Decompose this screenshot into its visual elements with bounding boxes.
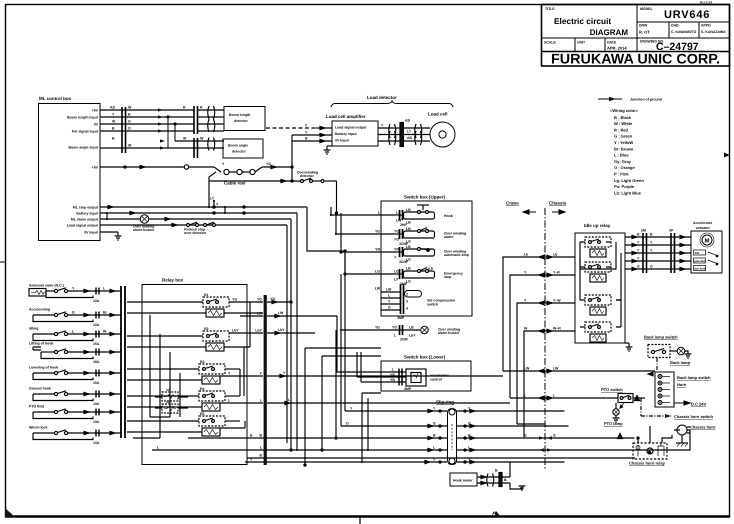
feeds [637, 438, 639, 443]
over winding alarm buzzer [340, 325, 428, 335]
svg-text:detector: detector [232, 150, 246, 154]
svg-text:S. KANAZAWA: S. KANAZAWA [701, 30, 726, 34]
svg-text:Pu: Purple: Pu: Purple [614, 184, 635, 189]
junction marks at boundary [539, 255, 552, 333]
svg-text:SW: SW [695, 251, 700, 255]
3rd compression switch [381, 284, 422, 314]
svg-text:B: B [637, 233, 640, 237]
boom angle detector [223, 139, 263, 158]
svg-text:Switch box (Upper): Switch box (Upper) [404, 195, 446, 200]
svg-text:CHD: CHD [671, 24, 679, 28]
connector bar length detector [193, 106, 195, 134]
junction dots [439, 410, 441, 412]
svg-text:R. OT: R. OT [639, 30, 650, 35]
svg-text:R2: R2 [204, 327, 209, 331]
svg-text:W–R: W–R [553, 327, 561, 331]
lifting of hook switch [33, 347, 121, 359]
svg-text:B: B [259, 454, 262, 458]
svg-text:LbY: LbY [232, 329, 239, 333]
switch row over winding alarm [395, 228, 435, 240]
svg-text:LY: LY [210, 197, 215, 201]
svg-text:APPD: APPD [701, 24, 711, 28]
svg-text:Y: Y [216, 203, 219, 207]
wire sr4 [152, 449, 447, 451]
svg-text:2GM: 2GM [400, 338, 408, 342]
idling switch [33, 331, 121, 341]
PTO field switch [33, 409, 121, 419]
svg-text:L: L [433, 446, 436, 450]
amp input wires [292, 126, 332, 142]
svg-text:Boom angle input: Boom angle input [68, 146, 98, 150]
svg-text:ML stop output: ML stop output [73, 206, 99, 210]
svg-text:LW: LW [553, 367, 559, 371]
svg-text:Y: Y [222, 162, 225, 166]
wire boom angle 1 [175, 140, 224, 142]
connector arcs length [208, 106, 215, 132]
solenoid valve switch [29, 288, 121, 298]
svg-text:B : Black: B : Black [614, 115, 632, 120]
svg-text:Ground hook: Ground hook [29, 387, 51, 391]
svg-text:M: M [705, 238, 710, 245]
tick below bottom edge [359, 516, 361, 524]
wire ML alarm [100, 218, 291, 220]
svg-text:L: L [157, 446, 160, 450]
wire out y301 [267, 301, 291, 303]
slip ring wires [152, 409, 691, 463]
svg-text:Back lamp: Back lamp [670, 360, 691, 365]
wire io1 [625, 236, 691, 238]
idle up relay box [575, 233, 625, 343]
svg-text:Y: Y [524, 271, 527, 275]
wire sr5 [245, 461, 447, 463]
boom length detector [224, 107, 265, 131]
connector bar idle 1 [642, 233, 644, 273]
svg-text:G: G [128, 120, 131, 124]
svg-text:Y–R: Y–R [553, 271, 560, 275]
svg-text:Load cell amplifier: Load cell amplifier [326, 114, 366, 119]
svg-text:YG: YG [257, 298, 262, 302]
relay IU1 [580, 237, 611, 258]
svg-text:G: G [637, 265, 640, 269]
slip ring capsule [448, 409, 457, 465]
svg-text:LG: LG [375, 270, 380, 274]
load cell amplifier [332, 121, 378, 146]
lower area vertical links [247, 330, 635, 466]
svg-text:Y: Y [350, 407, 353, 411]
relay R3 [127, 364, 263, 384]
svg-text:B: B [495, 469, 498, 473]
svg-text:potentio: potentio [694, 259, 705, 263]
svg-text:Y: Y [305, 131, 308, 135]
svg-text:Y: Y [524, 299, 527, 303]
svg-text:Y: Y [381, 124, 384, 128]
wire boom length signal [100, 116, 194, 118]
switch row emergency stop [395, 267, 435, 280]
svg-text:YR: YR [394, 248, 399, 252]
junction dots bar C [264, 301, 266, 463]
node vertical [291, 135, 293, 181]
svg-text:+5V: +5V [92, 109, 99, 113]
svg-text:DRW: DRW [639, 24, 648, 28]
centering mark bottom triangle [491, 511, 501, 517]
svg-text:LY: LY [394, 278, 399, 282]
svg-text:G: G [72, 311, 75, 315]
svg-text:LB: LB [406, 245, 411, 249]
svg-text:Chassis horn relay: Chassis horn relay [629, 461, 666, 466]
wire bus down 2 [296, 213, 298, 450]
ML box bottom vertical links [107, 201, 214, 219]
svg-text:Load signal output: Load signal output [67, 224, 99, 228]
chassis ground hatched [676, 435, 688, 447]
svg-text:15A: 15A [93, 360, 100, 364]
svg-text:LbY: LbY [278, 328, 285, 332]
svg-text:10A: 10A [93, 441, 100, 445]
svg-text:alarm buzzer: alarm buzzer [133, 228, 155, 232]
svg-text:G: G [553, 434, 556, 438]
wire out y316 [267, 315, 337, 317]
svg-text:L: L [228, 399, 231, 403]
svg-text:Back lamp switch: Back lamp switch [677, 375, 711, 380]
svg-text:3MP: 3MP [397, 316, 405, 320]
relay R5 [127, 416, 245, 436]
svg-text:Y: Y [305, 124, 308, 128]
svg-text:PTO field: PTO field [29, 405, 44, 409]
svg-text:UNIT: UNIT [577, 41, 586, 45]
svg-text:L: L [553, 394, 556, 398]
svg-text:R4: R4 [200, 387, 205, 391]
svg-text:10A: 10A [93, 323, 100, 327]
hook motor box [450, 473, 477, 486]
svg-text:over detector: over detector [184, 231, 207, 235]
svg-text:Y: Y [394, 256, 397, 260]
lowering of hook switch [33, 370, 121, 380]
svg-text:O : Orange: O : Orange [614, 165, 635, 170]
junction of chassis symbol [598, 97, 622, 102]
svg-text:0V input: 0V input [84, 231, 99, 235]
svg-text:L: L [260, 399, 263, 403]
ground idle box [625, 343, 632, 351]
svg-text:15A: 15A [93, 342, 100, 346]
svg-text:G: G [650, 265, 653, 269]
svg-text:1A: 1A [166, 388, 171, 392]
wire sr1 [345, 410, 447, 412]
svg-text:Lb: Lb [553, 253, 557, 257]
switch overwinding [301, 180, 304, 183]
svg-text:B: B [128, 113, 131, 117]
svg-text:Slip ring: Slip ring [436, 400, 454, 405]
svg-text:LB: LB [406, 208, 411, 212]
svg-text:Y : YelloW: Y : YelloW [614, 140, 633, 145]
motor [702, 235, 712, 245]
PTO lamp [613, 403, 620, 422]
svg-text:L: L [103, 287, 106, 291]
labels bar C crossings left [255, 298, 262, 458]
svg-text:Lifting of hook: Lifting of hook [29, 342, 53, 346]
svg-text:B: B [305, 137, 308, 141]
svg-text:G: G [388, 306, 391, 310]
svg-text:a.b: a.b [428, 267, 433, 271]
svg-text:R3: R3 [200, 360, 205, 364]
svg-text:Horn: Horn [677, 382, 687, 387]
svg-text:P : Pink: P : Pink [614, 172, 629, 177]
svg-text:MODEL: MODEL [640, 7, 654, 11]
connector bar idle 2 [670, 233, 672, 273]
svg-text:Y: Y [283, 371, 286, 375]
svg-text:Y: Y [388, 300, 391, 304]
chassis arrow [552, 210, 565, 214]
svg-text:LW: LW [375, 287, 381, 291]
switch row over winding stop [395, 247, 435, 257]
wire bus down 1 [307, 207, 345, 251]
switch box upper [381, 201, 472, 316]
svg-text:Idle up relay: Idle up relay [584, 223, 611, 228]
relay R4 [127, 391, 263, 411]
svg-text:YG: YG [392, 326, 397, 330]
svg-text:Back lamp switch: Back lamp switch [644, 335, 678, 340]
svg-text:Chassis: Chassis [549, 201, 567, 206]
wire ML stop [100, 206, 307, 208]
horn block [655, 372, 674, 407]
connector bar ML [121, 107, 123, 153]
wire pot signal [100, 130, 194, 132]
cable reel coils [214, 167, 221, 172]
wire corner 4 [524, 331, 575, 438]
amp output wires [378, 123, 430, 147]
svg-text:L: L [378, 211, 381, 215]
wire boom 0V [100, 123, 194, 125]
junction marks y450 [539, 448, 552, 452]
feed wires lower box [337, 316, 365, 382]
svg-text:Hook: Hook [444, 214, 453, 218]
svg-text:Winch lock: Winch lock [29, 426, 47, 430]
labels slip ring feeds [157, 407, 353, 462]
svg-text:Load detector: Load detector [367, 95, 397, 100]
svg-text:Y: Y [650, 249, 653, 253]
kickout override switches [187, 222, 216, 226]
branch verticals [167, 116, 169, 118]
right vertical from horn block [687, 430, 690, 450]
svg-text:Y: Y [260, 372, 263, 376]
svg-text:Lb: Light Blue: Lb: Light Blue [614, 190, 642, 195]
svg-text:Y–W: Y–W [553, 299, 561, 303]
wire out y403 long [267, 402, 510, 404]
svg-text:G: G [468, 422, 471, 426]
connector arcs pair2 [415, 124, 422, 145]
svg-text:AG: AG [110, 106, 116, 110]
svg-text:Boom length input: Boom length input [67, 116, 99, 120]
wires to length detector [197, 109, 224, 111]
svg-text:L: L [396, 211, 399, 215]
svg-text:G: G [346, 422, 349, 426]
svg-text:SCALE: SCALE [544, 41, 557, 45]
arrows on buses [108, 205, 177, 226]
svg-text:W: W [200, 137, 204, 141]
svg-text:W: W [128, 144, 132, 148]
wire out y376 long [267, 375, 503, 377]
connector bar angle detector [193, 138, 195, 158]
wire battery [100, 212, 297, 214]
DC24V arrow [674, 401, 690, 405]
svg-text:FURUKAWA UNIC CORP.: FURUKAWA UNIC CORP. [551, 51, 720, 67]
svg-text:10A: 10A [93, 402, 100, 406]
svg-text:Y: Y [637, 249, 640, 253]
wire [209, 172, 216, 181]
wire to PTO [510, 397, 618, 399]
svg-text:detector: detector [234, 119, 248, 123]
svg-text:Crane: Crane [506, 201, 519, 206]
svg-text:R5: R5 [200, 412, 205, 416]
svg-text:O: O [128, 127, 131, 131]
svg-text:0V: 0V [94, 123, 99, 127]
svg-text:R: R [200, 106, 203, 110]
connector bold bar [400, 123, 403, 147]
svg-text:LW: LW [524, 367, 530, 371]
svg-text:B: B [433, 434, 436, 438]
svg-text:B: B [112, 127, 115, 131]
wire io4 [625, 260, 691, 262]
svg-text:B: B [650, 233, 653, 237]
svg-text:L: L [524, 394, 527, 398]
wire +5V to reel [100, 166, 184, 168]
relay R1 [127, 297, 263, 317]
arrows [272, 300, 290, 404]
wire sr2 [341, 425, 447, 427]
svg-text:10A: 10A [93, 420, 100, 424]
svg-text:L: L [392, 368, 395, 372]
svg-text:L : Blue: L : Blue [614, 153, 629, 158]
svg-text:LbY: LbY [409, 334, 416, 338]
row feed labels left of switch box upper [375, 211, 381, 330]
wire 0V [100, 231, 118, 233]
wire out y333 [267, 332, 315, 334]
svg-text:DIAGRAM: DIAGRAM [590, 28, 629, 37]
svg-text:B: B [504, 478, 507, 482]
svg-text:PTO lamp: PTO lamp [604, 421, 623, 426]
centering mark right arrow [724, 153, 730, 158]
wire bus down 3 [290, 219, 292, 450]
svg-text:Lg: Light Green: Lg: Light Green [614, 178, 644, 183]
svg-text:Switch box (Lower): Switch box (Lower) [404, 355, 446, 360]
svg-text:LW: LW [278, 311, 284, 315]
svg-text:YG: YG [232, 298, 237, 302]
svg-text:W: W [183, 137, 187, 141]
svg-text:W: W [524, 327, 528, 331]
wire feed switchbox rows [208, 181, 210, 207]
svg-text:sub level: sub level [694, 267, 706, 271]
svg-text:L: L [388, 294, 391, 298]
svg-text:15A: 15A [93, 381, 100, 385]
svg-text:LB: LB [406, 267, 411, 271]
svg-text:W: W [112, 120, 116, 124]
svg-text:PTO switch: PTO switch [601, 387, 623, 392]
svg-text:L: L [394, 334, 397, 338]
svg-text:LY: LY [407, 130, 412, 134]
svg-text:0V input: 0V input [335, 139, 350, 143]
ground hook switch [33, 391, 121, 401]
svg-text:Solenoid valve (N.C.): Solenoid valve (N.C.) [29, 284, 64, 288]
idle output wires [625, 233, 691, 273]
junction dots [213, 206, 215, 208]
svg-text:Load cell: Load cell [428, 112, 448, 117]
node open circle [184, 165, 188, 169]
svg-text:AB: AB [405, 119, 411, 123]
svg-text:LB: LB [406, 227, 411, 231]
relay R2 [127, 331, 263, 351]
svg-text:G : Green: G : Green [614, 134, 633, 139]
svg-text:Y: Y [637, 241, 640, 245]
svg-text:Junction of ground: Junction of ground [630, 98, 662, 102]
wire boom +5V [100, 109, 194, 111]
svg-text:Chassis horn: Chassis horn [690, 425, 716, 430]
switch row hook [395, 205, 435, 220]
wire corner 3 [517, 303, 575, 424]
svg-text:B: B [259, 434, 262, 438]
dashed boom line [266, 127, 316, 129]
svg-text:3: 3 [406, 300, 408, 304]
svg-text:automatic stop: automatic stop [444, 253, 469, 257]
crane arrow [523, 210, 536, 214]
load detector brace [331, 101, 453, 107]
svg-text:actuator: actuator [696, 226, 710, 230]
svg-text:Lb: Lb [524, 253, 528, 257]
svg-text:YG: YG [394, 238, 399, 242]
wire into horn block [503, 369, 655, 376]
svg-text:10A: 10A [93, 299, 100, 303]
svg-text:2: 2 [406, 293, 408, 297]
svg-text:DATE: DATE [607, 41, 617, 45]
wire io5 [625, 268, 691, 270]
svg-text:2P: 2P [669, 229, 674, 233]
svg-text:Battery input: Battery input [76, 212, 98, 216]
ground at amp [324, 146, 331, 154]
svg-text:Y: Y [112, 113, 115, 117]
svg-text:alarm buzzer: alarm buzzer [438, 331, 460, 335]
mech link dashdot [656, 358, 658, 372]
svg-text:Y: Y [637, 257, 640, 261]
svg-text:2M: 2M [641, 229, 646, 233]
svg-text:B: B [112, 137, 115, 141]
svg-text:Pot signal input: Pot signal input [72, 130, 99, 134]
svg-text:R: R [183, 106, 186, 110]
svg-text:Gy: Gray: Gy: Gray [614, 159, 632, 164]
back lamp [677, 347, 685, 355]
svg-text:Hook motor: Hook motor [453, 479, 473, 483]
svg-text:R : Red: R : Red [614, 127, 629, 132]
load cell [430, 122, 455, 147]
svg-text:Electric circuit: Electric circuit [554, 16, 611, 26]
svg-text:YR: YR [390, 373, 395, 377]
svg-text:W: W [103, 330, 107, 334]
svg-text:Accelerating: Accelerating [29, 308, 50, 312]
connector arcs angle [208, 138, 215, 151]
actuator internals [694, 250, 719, 271]
svg-text:detector: detector [300, 174, 314, 178]
svg-text:Boom angle: Boom angle [228, 144, 248, 148]
svg-text:alarm: alarm [444, 235, 453, 239]
svg-text:3CHP: 3CHP [399, 260, 409, 264]
svg-text:Y: Y [228, 372, 231, 376]
svg-text:1A: 1A [166, 400, 171, 404]
svg-text:YB: YB [390, 378, 395, 382]
svg-text:Boom length: Boom length [229, 113, 250, 117]
wire corner 1 [503, 257, 575, 371]
wire load signal [100, 224, 287, 226]
left column link wires [133, 315, 180, 438]
svg-text:D.C 24V: D.C 24V [691, 402, 706, 407]
corner triangle bottom-left [5, 508, 15, 517]
relay box inner verticals [155, 302, 250, 428]
wire chassis horn bus [539, 436, 552, 440]
